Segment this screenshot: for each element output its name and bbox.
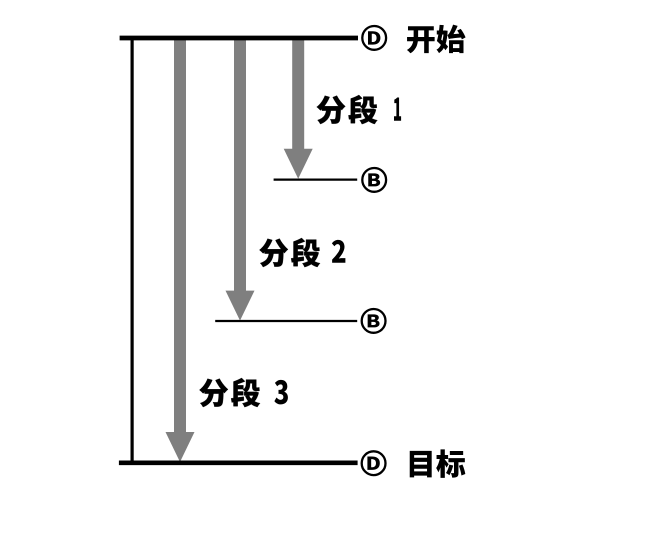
wire: level line B2 <box>215 320 357 322</box>
wire: left vertical line <box>131 36 134 464</box>
arrow: segment 2 (middle) <box>226 40 255 321</box>
label: 分段 1 <box>317 95 401 124</box>
arrow: segment 1 (shortest) <box>284 40 313 179</box>
label: 开始 (start) <box>407 25 466 54</box>
label: 分段 2 <box>259 238 345 267</box>
arrow: segment 3 (longest) <box>166 40 195 462</box>
node B (level 1) <box>362 168 386 192</box>
label: 分段 3 <box>199 378 288 407</box>
wire: level line B1 <box>274 179 358 181</box>
node B (level 2) <box>362 309 386 333</box>
wire: top start line <box>120 36 358 41</box>
wire: bottom goal line <box>119 460 358 465</box>
node D (start) <box>362 26 386 50</box>
node D (goal) <box>362 451 386 475</box>
label: 目标 (goal) <box>410 449 466 478</box>
